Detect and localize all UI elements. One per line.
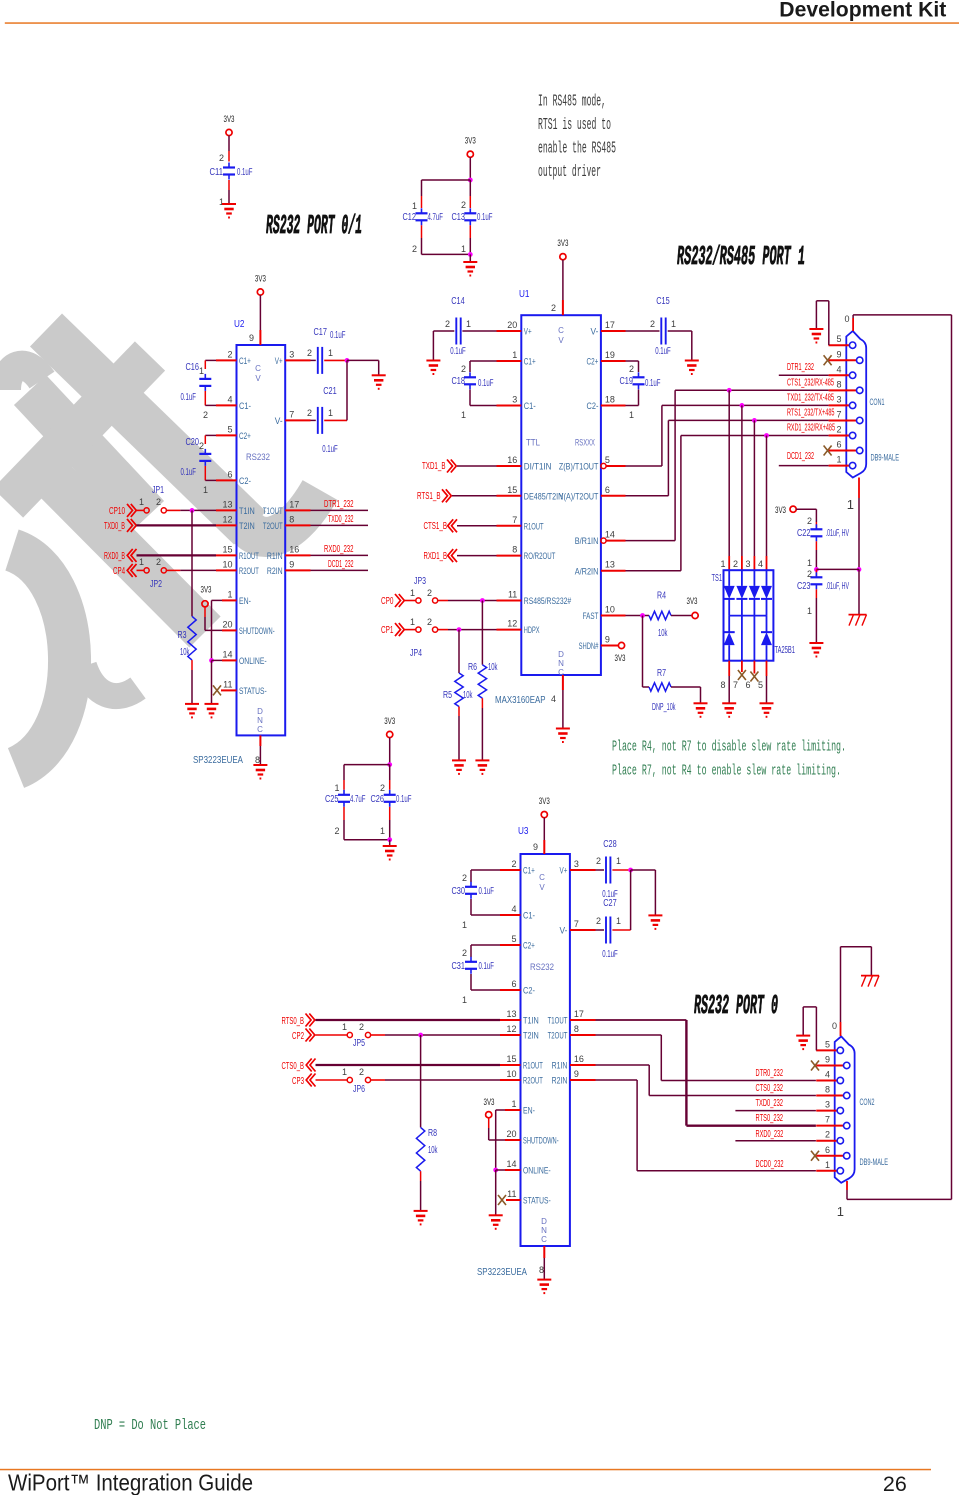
node C22 C23 bbox=[814, 567, 819, 572]
svg-text:1: 1 bbox=[334, 783, 339, 793]
svg-text:TXD1_232/TX-485: TXD1_232/TX-485 bbox=[787, 393, 834, 404]
svg-text:V: V bbox=[558, 336, 564, 345]
svg-text:TXD0_B: TXD0_B bbox=[104, 521, 125, 532]
svg-text:C: C bbox=[255, 364, 261, 373]
ic U3 SP3223EUEA body bbox=[521, 854, 570, 1246]
svg-text:DCD1_232: DCD1_232 bbox=[787, 451, 814, 462]
svg-text:4.7uF: 4.7uF bbox=[428, 212, 444, 223]
ground below R6 bbox=[475, 759, 489, 761]
svg-text:1: 1 bbox=[671, 319, 676, 329]
wire CON1 shield to right bus bbox=[852, 318, 854, 331]
node C28 junction bbox=[628, 868, 633, 873]
svg-text:8: 8 bbox=[539, 1265, 544, 1275]
wire R3 to ground bbox=[191, 660, 193, 670]
svg-text:1: 1 bbox=[461, 410, 466, 420]
capacitor C11 bbox=[223, 166, 235, 168]
svg-text:0.1uF: 0.1uF bbox=[396, 794, 412, 805]
ground below C23 bbox=[809, 642, 823, 644]
power 3V3 for C11 bbox=[226, 129, 232, 135]
power 3V3 at C22 bbox=[790, 506, 796, 512]
svg-text:1: 1 bbox=[203, 485, 208, 495]
wire FAST down to R7 bbox=[642, 616, 644, 688]
svg-text:T2OUT: T2OUT bbox=[263, 521, 283, 531]
svg-text:1: 1 bbox=[410, 588, 415, 598]
svg-text:SP3223EUEA: SP3223EUEA bbox=[477, 1266, 527, 1278]
svg-text:JP3: JP3 bbox=[414, 576, 426, 587]
svg-text:7: 7 bbox=[836, 409, 841, 419]
svg-text:1: 1 bbox=[616, 856, 621, 866]
ic U2 SP3223EUEA body bbox=[237, 345, 286, 735]
svg-text:26: 26 bbox=[883, 1472, 907, 1495]
svg-text:4: 4 bbox=[227, 394, 232, 404]
svg-text:7: 7 bbox=[825, 1115, 830, 1125]
svg-text:C2-: C2- bbox=[587, 401, 599, 411]
svg-text:11: 11 bbox=[223, 679, 232, 689]
wire TXD0_232 row bbox=[735, 1110, 816, 1112]
capacitor C15 with wires bbox=[601, 330, 626, 332]
svg-text:SHDN#: SHDN# bbox=[579, 641, 599, 651]
svg-text:0.1uF: 0.1uF bbox=[330, 330, 346, 341]
svg-text:HDPX: HDPX bbox=[524, 625, 540, 635]
svg-text:6: 6 bbox=[227, 469, 232, 479]
svg-text:2: 2 bbox=[412, 244, 417, 254]
svg-text:2: 2 bbox=[307, 408, 312, 418]
svg-text:16: 16 bbox=[289, 544, 299, 554]
svg-text:0.1uF: 0.1uF bbox=[478, 378, 494, 389]
svg-text:3V3: 3V3 bbox=[775, 505, 786, 516]
svg-text:RXD1_232/RX+485: RXD1_232/RX+485 bbox=[787, 423, 835, 434]
svg-text:9: 9 bbox=[574, 1069, 579, 1079]
svg-text:C21: C21 bbox=[323, 386, 337, 397]
svg-text:R1OUT: R1OUT bbox=[239, 551, 259, 561]
wire C11 to ground bbox=[228, 180, 230, 190]
svg-text:1: 1 bbox=[139, 497, 144, 507]
svg-text:0.1uF: 0.1uF bbox=[237, 167, 253, 178]
wire C21 to V+ node bbox=[346, 360, 348, 420]
svg-text:DTR0_232: DTR0_232 bbox=[756, 1068, 784, 1079]
svg-text:Development Kit: Development Kit bbox=[779, 0, 946, 22]
footer rule bbox=[0, 1469, 931, 1471]
wire U1 pin2 to 3V3 bbox=[562, 260, 564, 300]
power 3V3 for C12 C13 bbox=[467, 151, 473, 157]
node T1IN junction bbox=[190, 508, 195, 513]
svg-text:RSXXX: RSXXX bbox=[575, 438, 595, 449]
svg-text:1: 1 bbox=[412, 201, 417, 211]
svg-text:CP0: CP0 bbox=[381, 596, 394, 607]
wire C25 C26 bottom rail bbox=[343, 807, 345, 820]
svg-text:3V3: 3V3 bbox=[465, 136, 476, 147]
svg-text:V-: V- bbox=[591, 327, 599, 337]
svg-text:7: 7 bbox=[733, 680, 738, 690]
svg-text:CP10: CP10 bbox=[109, 506, 125, 517]
wire 3V3 to C11 bbox=[228, 136, 230, 151]
capacitor C18 with wires bbox=[497, 360, 522, 362]
svg-text:C28: C28 bbox=[603, 839, 617, 850]
svg-text:1: 1 bbox=[836, 455, 841, 465]
wire CON1 pin5 to ground bbox=[828, 344, 830, 346]
ground below U1 bbox=[556, 728, 570, 730]
wire 3V3 down bbox=[469, 157, 471, 180]
svg-text:3V3: 3V3 bbox=[224, 114, 235, 125]
svg-text:2: 2 bbox=[227, 349, 232, 359]
svg-text:8: 8 bbox=[720, 680, 725, 690]
svg-text:TXD0_232: TXD0_232 bbox=[756, 1098, 784, 1109]
diode TS1 D5 bbox=[724, 632, 735, 645]
svg-text:2: 2 bbox=[427, 588, 432, 598]
no-connect X CON2 pin6 bbox=[811, 1151, 819, 1161]
wire R7 to ground bbox=[671, 686, 701, 688]
ground at C17 bbox=[372, 374, 386, 376]
svg-text:7: 7 bbox=[574, 919, 579, 929]
svg-text:A/R2IN: A/R2IN bbox=[575, 566, 599, 576]
no-connect X on U2 STATUS bbox=[213, 685, 221, 695]
svg-text:R1IN: R1IN bbox=[552, 1061, 568, 1071]
wire TXD0_B to U2 T2IN bbox=[137, 524, 217, 526]
svg-text:C1-: C1- bbox=[523, 911, 535, 921]
svg-text:DI/T1IN: DI/T1IN bbox=[524, 462, 552, 472]
svg-text:1: 1 bbox=[462, 920, 467, 930]
power 3V3 at U2 EN bbox=[202, 601, 208, 607]
wire U3 R2IN to DCD0 row bbox=[570, 1079, 596, 1081]
svg-text:3V3: 3V3 bbox=[557, 238, 568, 249]
svg-text:16: 16 bbox=[507, 455, 517, 465]
ground below U3 bbox=[537, 1279, 551, 1281]
wire DCD1_232 row bbox=[779, 465, 829, 467]
wire C23 to ground bbox=[815, 589, 817, 598]
svg-text:17: 17 bbox=[574, 1009, 584, 1019]
ground below TS1 pin8 bbox=[722, 702, 736, 704]
svg-text:C1-: C1- bbox=[524, 401, 536, 411]
svg-text:9: 9 bbox=[249, 333, 254, 343]
svg-text:C: C bbox=[541, 1235, 547, 1244]
power 3V3 at SHDN# bbox=[618, 642, 624, 648]
svg-text:SHUTDOWN-: SHUTDOWN- bbox=[523, 1136, 559, 1146]
svg-text:1: 1 bbox=[380, 826, 385, 836]
svg-text:1: 1 bbox=[837, 1204, 844, 1219]
svg-text:CP2: CP2 bbox=[292, 1031, 304, 1042]
wire R5 to ground bbox=[458, 707, 460, 717]
svg-text:EN-: EN- bbox=[239, 596, 251, 606]
svg-text:R5: R5 bbox=[443, 690, 452, 701]
svg-text:T1OUT: T1OUT bbox=[263, 506, 283, 516]
svg-text:TTL: TTL bbox=[526, 438, 540, 449]
power 3V3 at U3 EN bbox=[486, 1112, 492, 1118]
diode TS1 D2 bbox=[736, 586, 747, 599]
svg-text:STATUS-: STATUS- bbox=[239, 686, 267, 696]
svg-text:C13: C13 bbox=[452, 212, 466, 223]
wire TS1 pin3 riser bbox=[753, 420, 755, 556]
svg-text:N: N bbox=[257, 716, 263, 725]
svg-text:N: N bbox=[558, 659, 564, 668]
svg-text:10k: 10k bbox=[488, 662, 498, 673]
svg-text:2: 2 bbox=[156, 557, 161, 567]
wire U2 EN SHUTDOWN ONLINE chain bbox=[222, 599, 237, 601]
svg-text:RS232 PORT 0: RS232 PORT 0 bbox=[694, 992, 778, 1022]
svg-text:DCD1_232: DCD1_232 bbox=[328, 559, 354, 570]
svg-text:EN-: EN- bbox=[523, 1106, 535, 1116]
connector CON2 DB9-MALE shell and pins bbox=[835, 1036, 855, 1182]
svg-text:1: 1 bbox=[807, 606, 812, 616]
svg-text:1: 1 bbox=[720, 559, 725, 569]
svg-text:.01uF, HV: .01uF, HV bbox=[826, 581, 850, 592]
svg-text:9: 9 bbox=[836, 349, 841, 359]
svg-text:V-: V- bbox=[275, 416, 283, 426]
ts1 inner rail bbox=[729, 615, 766, 617]
svg-text:RS232: RS232 bbox=[530, 962, 554, 973]
svg-text:0.1uF: 0.1uF bbox=[322, 444, 338, 455]
svg-text:2: 2 bbox=[511, 859, 516, 869]
svg-text:16: 16 bbox=[574, 1054, 584, 1064]
wire CTS1_B to U1 bbox=[457, 525, 497, 527]
svg-text:1: 1 bbox=[328, 408, 333, 418]
no-connect X TS1 pin7 bbox=[741, 661, 743, 672]
svg-text:RTS0_B: RTS0_B bbox=[282, 1016, 305, 1027]
no-connect X on U3 STATUS bbox=[498, 1195, 506, 1205]
wire RXD0_232 row bbox=[735, 1140, 816, 1142]
svg-text:RXD0_B: RXD0_B bbox=[104, 551, 125, 562]
no-connect X CON2 pin9 bbox=[811, 1060, 819, 1070]
wire U2 R1IN bbox=[285, 554, 310, 556]
wire U2 T2OUT bbox=[285, 524, 310, 526]
right bus wire CON1 shield to CON2 shell bbox=[951, 315, 953, 1200]
svg-text:B/R1IN: B/R1IN bbox=[575, 536, 599, 546]
svg-text:2: 2 bbox=[427, 617, 432, 627]
capacitor C12 4.7uF bbox=[416, 212, 428, 214]
svg-text:V+: V+ bbox=[275, 356, 283, 366]
svg-text:10: 10 bbox=[506, 1069, 516, 1079]
svg-text:0.1uF: 0.1uF bbox=[181, 467, 197, 478]
svg-text:DNP = Do Not Place: DNP = Do Not Place bbox=[94, 1417, 206, 1434]
wire U1 A/R2IN to RXD1 row bbox=[601, 570, 626, 572]
ground below R5 bbox=[452, 759, 466, 761]
capacitor C27 with wires bbox=[570, 929, 596, 931]
svg-text:T2IN: T2IN bbox=[523, 1031, 539, 1041]
svg-text:R2OUT: R2OUT bbox=[523, 1076, 543, 1086]
svg-text:C18: C18 bbox=[452, 376, 466, 387]
svg-text:4: 4 bbox=[825, 1070, 830, 1080]
svg-text:6: 6 bbox=[825, 1145, 830, 1155]
wire U3 T2OUT to DTR0 row bbox=[570, 1034, 596, 1036]
svg-text:9: 9 bbox=[605, 635, 610, 645]
wire C12 C13 bottom rail bbox=[421, 225, 423, 238]
wire U1 FAST to R4 bbox=[601, 615, 626, 617]
svg-text:0.1uF: 0.1uF bbox=[655, 346, 671, 357]
resistor R8 10k bbox=[416, 1127, 424, 1171]
wire CTS1 net row bbox=[675, 389, 829, 391]
wire JP5 pin2 to U3 T2IN bbox=[370, 1034, 385, 1036]
svg-text:2: 2 bbox=[445, 319, 450, 329]
svg-text:RS232: RS232 bbox=[246, 452, 270, 463]
svg-text:2: 2 bbox=[629, 364, 634, 374]
svg-text:1: 1 bbox=[227, 589, 232, 599]
wire C27 to C28 node bbox=[630, 870, 632, 930]
svg-text:RXD0_232: RXD0_232 bbox=[756, 1129, 784, 1140]
svg-text:enable the RS485: enable the RS485 bbox=[538, 139, 616, 158]
svg-text:RS232 PORT 0/1: RS232 PORT 0/1 bbox=[266, 212, 362, 242]
svg-text:4: 4 bbox=[758, 559, 763, 569]
svg-text:1: 1 bbox=[825, 1160, 830, 1170]
svg-text:11: 11 bbox=[508, 590, 517, 600]
earth ground at CON1 bbox=[849, 614, 867, 616]
svg-text:U3: U3 bbox=[518, 825, 529, 837]
capacitor C23 .01uF HV bbox=[815, 569, 817, 577]
svg-text:C1+: C1+ bbox=[239, 356, 251, 366]
svg-text:C: C bbox=[257, 725, 263, 734]
wire U2 pin8 to ground bbox=[259, 735, 261, 746]
ground below U2 bbox=[253, 764, 267, 766]
svg-text:2: 2 bbox=[380, 783, 385, 793]
svg-text:D: D bbox=[257, 707, 263, 716]
svg-text:C12: C12 bbox=[403, 212, 417, 223]
svg-text:.01uF, HV: .01uF, HV bbox=[826, 528, 850, 539]
svg-text:2: 2 bbox=[359, 1022, 364, 1032]
svg-text:8: 8 bbox=[255, 755, 260, 765]
svg-text:2: 2 bbox=[156, 497, 161, 507]
svg-text:1: 1 bbox=[342, 1067, 347, 1077]
svg-text:RTS1 is used to: RTS1 is used to bbox=[538, 115, 611, 134]
pin bubble U1 pin5 bbox=[601, 463, 606, 468]
wire C22 to node bbox=[815, 541, 817, 550]
svg-text:2: 2 bbox=[462, 948, 467, 958]
svg-text:RXD0_232: RXD0_232 bbox=[324, 544, 354, 555]
svg-text:1: 1 bbox=[199, 366, 204, 376]
svg-text:2: 2 bbox=[461, 200, 466, 210]
capacitor C20 with wires bbox=[216, 434, 237, 436]
svg-text:13: 13 bbox=[506, 1009, 516, 1019]
svg-text:1: 1 bbox=[462, 995, 467, 1005]
svg-text:14: 14 bbox=[605, 530, 615, 540]
svg-text:3: 3 bbox=[836, 394, 841, 404]
wire U3 pin9 to 3V3 bbox=[543, 818, 545, 840]
svg-text:JP4: JP4 bbox=[410, 648, 422, 659]
diode TS1 D1 bbox=[724, 586, 735, 599]
wire U3 EN SHUTDOWN ONLINE chain bbox=[505, 1109, 521, 1111]
capacitor C14 with wires bbox=[497, 330, 522, 332]
svg-text:RS232/RS485 PORT 1: RS232/RS485 PORT 1 bbox=[677, 243, 805, 273]
svg-text:C: C bbox=[558, 326, 564, 335]
svg-text:STATUS-: STATUS- bbox=[523, 1196, 551, 1206]
capacitor C19 with wires bbox=[601, 360, 626, 362]
resistor R4 10k bbox=[649, 611, 671, 619]
node FAST junction bbox=[640, 613, 645, 618]
svg-text:1: 1 bbox=[461, 244, 466, 254]
svg-text:C1+: C1+ bbox=[524, 357, 536, 367]
svg-text:CP1: CP1 bbox=[381, 625, 394, 636]
svg-text:8: 8 bbox=[825, 1085, 830, 1095]
svg-text:2: 2 bbox=[836, 425, 841, 435]
svg-text:V: V bbox=[539, 883, 545, 892]
svg-text:6: 6 bbox=[836, 440, 841, 450]
wire V+ node to ground bbox=[347, 359, 379, 361]
svg-text:2: 2 bbox=[596, 916, 601, 926]
ground at C28 bbox=[648, 914, 662, 916]
wire CON1 shell bottom to earth bbox=[858, 478, 860, 499]
wire TXD1 net row bbox=[662, 404, 829, 406]
wire R8 to ground bbox=[420, 1171, 422, 1181]
ground below TS1 pin5 bbox=[760, 702, 774, 704]
wire C28 node to ground bbox=[631, 869, 656, 871]
svg-text:DTR1_232: DTR1_232 bbox=[787, 362, 814, 373]
svg-text:2: 2 bbox=[650, 319, 655, 329]
svg-text:2: 2 bbox=[307, 348, 312, 358]
svg-text:JP1: JP1 bbox=[152, 485, 164, 496]
svg-text:R4: R4 bbox=[657, 591, 666, 602]
svg-text:C2-: C2- bbox=[239, 476, 251, 486]
capacitor C21 with wires bbox=[285, 419, 310, 421]
svg-text:0.1uF: 0.1uF bbox=[479, 886, 495, 897]
svg-text:2: 2 bbox=[807, 516, 812, 526]
no-connect X CON1 pin6 bbox=[824, 446, 832, 456]
wire U1 B/R1IN to CTS1 row bbox=[606, 540, 625, 542]
svg-text:R1OUT: R1OUT bbox=[523, 1061, 543, 1071]
svg-text:11: 11 bbox=[507, 1189, 516, 1199]
svg-text:C2-: C2- bbox=[523, 986, 535, 996]
svg-text:5: 5 bbox=[511, 934, 516, 944]
svg-text:17: 17 bbox=[605, 320, 615, 330]
ground below C13 bbox=[463, 261, 477, 263]
svg-text:9: 9 bbox=[289, 559, 294, 569]
resistor R5 10k bbox=[455, 673, 463, 707]
svg-text:5: 5 bbox=[825, 1039, 830, 1049]
svg-text:4: 4 bbox=[511, 904, 516, 914]
wire RXD0_B to U2 R1OUT bbox=[137, 554, 217, 556]
svg-text:6: 6 bbox=[605, 485, 610, 495]
svg-text:3V3: 3V3 bbox=[615, 653, 626, 664]
svg-text:DB9-MALE: DB9-MALE bbox=[860, 1157, 889, 1167]
svg-text:C20: C20 bbox=[186, 437, 200, 448]
svg-text:3V3: 3V3 bbox=[255, 274, 266, 285]
svg-text:8: 8 bbox=[512, 545, 517, 555]
svg-text:20: 20 bbox=[507, 320, 517, 330]
svg-text:9: 9 bbox=[825, 1054, 830, 1064]
svg-text:4: 4 bbox=[551, 694, 556, 704]
svg-text:DB9-MALE: DB9-MALE bbox=[871, 453, 900, 463]
svg-text:RXD1_B: RXD1_B bbox=[424, 551, 448, 562]
diode TS1 D6 bbox=[761, 632, 772, 645]
svg-text:R7: R7 bbox=[657, 668, 666, 679]
svg-text:2: 2 bbox=[461, 364, 466, 374]
svg-text:CTS0_B: CTS0_B bbox=[282, 1061, 305, 1072]
svg-text:3: 3 bbox=[289, 349, 294, 359]
svg-text:R6: R6 bbox=[468, 662, 477, 673]
svg-text:6: 6 bbox=[745, 680, 750, 690]
page header rule bbox=[5, 22, 959, 24]
capacitor C17 with wires bbox=[285, 359, 310, 361]
svg-text:D: D bbox=[558, 650, 564, 659]
svg-text:CTS1_B: CTS1_B bbox=[424, 521, 448, 532]
wire JP6 pin2 to U3 R2OUT bbox=[370, 1079, 385, 1081]
svg-text:R8: R8 bbox=[428, 1128, 437, 1139]
no-connect X CON1 pin9 bbox=[824, 355, 832, 365]
svg-text:8: 8 bbox=[836, 379, 841, 389]
svg-text:0.1uF: 0.1uF bbox=[477, 212, 493, 223]
svg-text:0: 0 bbox=[832, 1021, 837, 1031]
power 3V3 for C25 C26 bbox=[387, 731, 393, 737]
svg-text:C1-: C1- bbox=[239, 401, 251, 411]
svg-text:V+: V+ bbox=[524, 327, 532, 337]
svg-text:C16: C16 bbox=[186, 362, 200, 373]
node R8 junction bbox=[418, 1033, 423, 1038]
svg-text:C: C bbox=[539, 873, 545, 882]
suppressor TS1 TA25B1 body bbox=[724, 570, 774, 661]
svg-text:1: 1 bbox=[847, 497, 854, 512]
svg-text:1: 1 bbox=[410, 617, 415, 627]
wire JP3 pin2 to U1 RS485# bbox=[437, 600, 448, 602]
wire JP1 pin2 to U2 T1IN bbox=[166, 509, 180, 511]
wire U1 SHDN# to 3V3 bbox=[601, 645, 618, 647]
capacitor C26 0.1uF bbox=[384, 794, 396, 796]
wire TS1 pin4 riser bbox=[766, 436, 768, 557]
